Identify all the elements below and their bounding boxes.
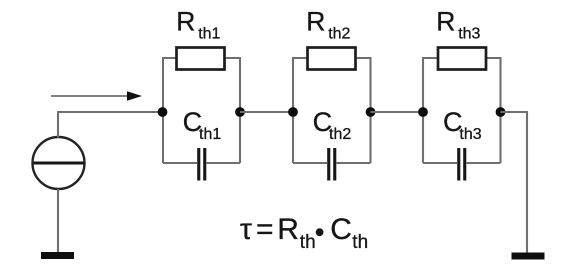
wire: [57, 113, 59, 138]
svg-text:τ: τ: [240, 213, 252, 246]
wire: [162, 58, 164, 163]
svg-text:R: R: [306, 7, 325, 37]
capacitor Cth2: [327, 148, 336, 181]
svg-text:th2: th2: [329, 126, 351, 143]
svg-text:C: C: [330, 213, 352, 246]
svg-text:R: R: [176, 7, 195, 37]
label Rth3: [436, 7, 480, 43]
ground: [41, 252, 74, 259]
formula tau = Rth * Cth: [240, 213, 368, 253]
svg-text:th2: th2: [328, 25, 350, 42]
svg-text:th: th: [352, 232, 368, 253]
label Cth2: [313, 107, 352, 143]
label Cth1: [183, 107, 222, 143]
svg-text:R: R: [277, 213, 299, 246]
resistor Rth2: [308, 48, 356, 70]
wire: [292, 58, 294, 163]
wire: [501, 112, 528, 253]
wire: [163, 162, 240, 164]
svg-text:th3: th3: [458, 25, 480, 42]
svg-text:th: th: [300, 232, 316, 253]
svg-text:th1: th1: [199, 126, 221, 143]
wire: [57, 189, 59, 253]
wire: [162, 57, 241, 59]
label Cth3: [443, 107, 482, 143]
wire: [422, 58, 424, 163]
capacitor Cth1: [197, 148, 206, 181]
wire: [293, 162, 371, 164]
ground: [512, 253, 545, 260]
node: [496, 107, 506, 117]
node: [288, 107, 298, 117]
wire: [499, 58, 501, 163]
svg-text:R: R: [436, 7, 455, 37]
svg-text:th1: th1: [198, 25, 220, 42]
wire: [423, 162, 501, 164]
resistor Rth3: [438, 48, 486, 70]
node: [418, 107, 428, 117]
label Rth1: [176, 7, 220, 43]
label Rth2: [306, 7, 350, 43]
wire: [369, 58, 371, 163]
wire: [371, 111, 425, 113]
capacitor Cth3: [457, 148, 466, 181]
svg-text:th3: th3: [459, 126, 481, 143]
wire: [57, 111, 163, 113]
node: [235, 107, 245, 117]
wire: [239, 58, 241, 163]
svg-text:=: =: [256, 213, 274, 246]
node: [366, 107, 376, 117]
wire: [292, 57, 372, 59]
node: [158, 107, 168, 117]
current source I: [33, 137, 85, 189]
wire: [240, 111, 294, 113]
resistor Rth1: [177, 48, 225, 70]
wire: [422, 57, 502, 59]
heat flow arrow: [51, 91, 142, 101]
